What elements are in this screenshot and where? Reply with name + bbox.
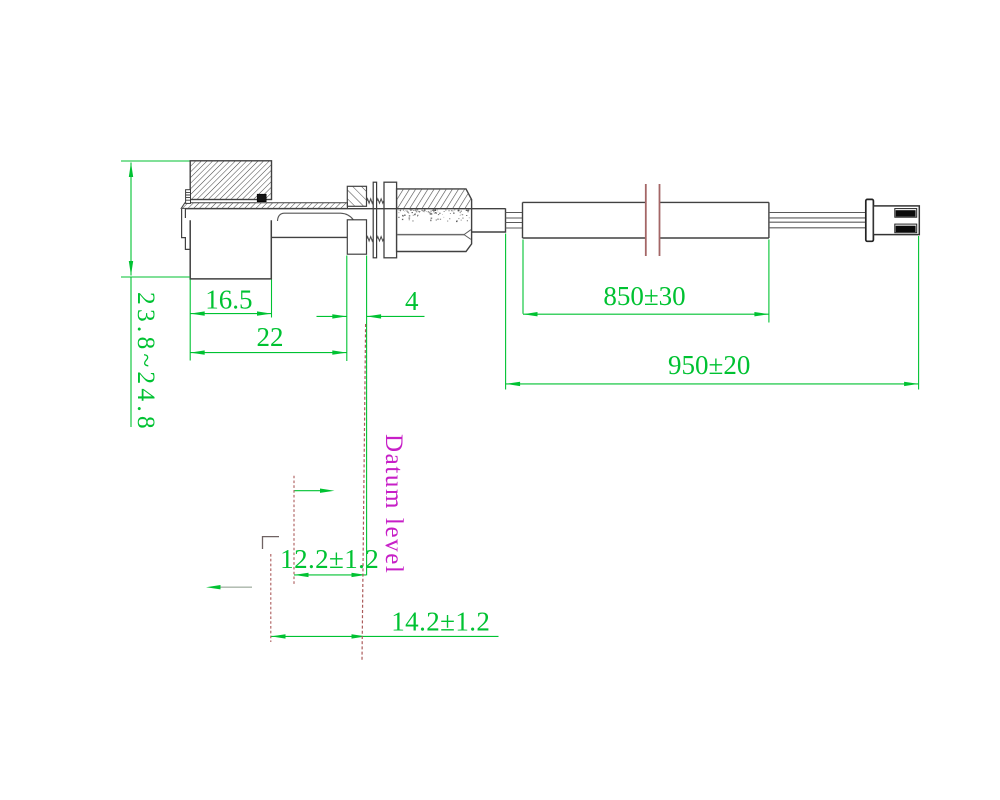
dimension 12.2±1.2 [294, 574, 366, 576]
stem tube bar (hatched cross-section) [181, 203, 347, 209]
dimension 23.8~24.8 vertical [121, 161, 190, 427]
float body housing [190, 220, 271, 279]
dimension 22 [190, 256, 347, 362]
cable sleeve cylinder [523, 202, 769, 238]
wires between cable and connector [769, 213, 866, 228]
thread zigzags [367, 199, 384, 241]
float magnet block [190, 161, 271, 200]
dimension 16.5 [190, 280, 271, 361]
tube between body and flange [272, 213, 354, 237]
flange lower body [347, 220, 366, 254]
Datum level label [380, 434, 407, 574]
svg-text:950±20: 950±20 [668, 350, 750, 380]
switch point dotted line upper [293, 476, 295, 586]
retaining clip (dark square) [257, 194, 266, 202]
thick washer / nut plate [384, 182, 397, 258]
svg-text:23.8~24.8: 23.8~24.8 [132, 292, 161, 433]
switch point dotted line lower [270, 554, 272, 642]
level leader arrow lower left [219, 586, 252, 588]
threaded stub left of float [186, 190, 191, 204]
dimension 14.2±1.2 [271, 635, 499, 637]
datum level dashed line [362, 324, 366, 661]
level leader arrow upper [295, 490, 323, 492]
connector flange [866, 199, 874, 241]
dimension 4 [317, 256, 425, 576]
tube top long edge [185, 208, 506, 210]
svg-text:14.2±1.2: 14.2±1.2 [391, 607, 490, 637]
left step bracket [182, 209, 191, 249]
break lines [646, 184, 660, 256]
pin 1 [895, 209, 917, 218]
thin lock washer [373, 182, 376, 258]
svg-text:850±30: 850±30 [603, 281, 685, 311]
nut exit cylinder [472, 208, 506, 232]
hex nut body [397, 189, 472, 252]
dimension 850±30 [523, 240, 769, 323]
connector body [873, 206, 919, 235]
svg-text:4: 4 [405, 286, 419, 316]
svg-text:12.2±1.2: 12.2±1.2 [280, 544, 379, 574]
wires between nut and cable [506, 213, 523, 229]
svg-text:16.5: 16.5 [205, 285, 252, 315]
pin 2 [895, 224, 917, 233]
svg-text:Datum level: Datum level [380, 434, 407, 574]
svg-text:22: 22 [257, 322, 284, 352]
corner bracket mark [263, 537, 280, 549]
dimension 950±20 [506, 234, 919, 390]
flange upper (hatched, section) [347, 186, 366, 206]
